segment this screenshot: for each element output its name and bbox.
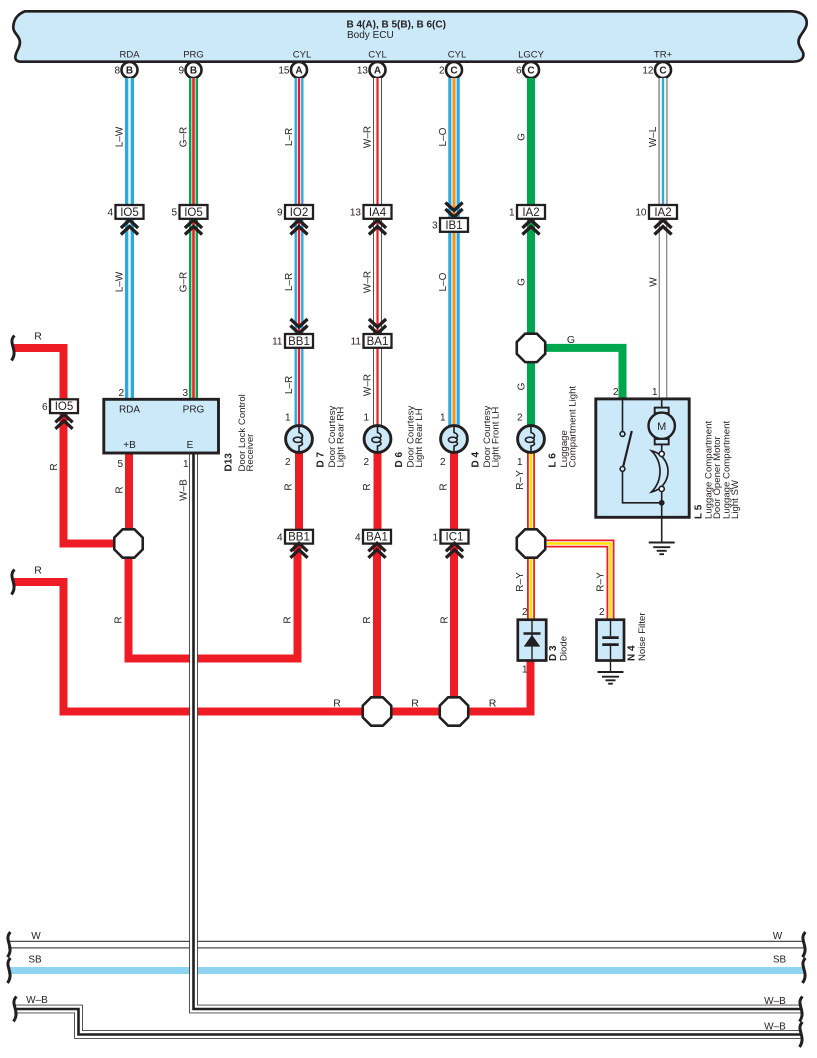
svg-text:L–R: L–R (284, 128, 295, 146)
junction J3 (R bus at BA1 drop) (363, 697, 391, 725)
svg-text:IO2: IO2 (290, 207, 309, 219)
wire G (pin 6(C) to connector IA2) (517, 78, 536, 205)
svg-text:+B: +B (123, 440, 136, 451)
svg-text:1: 1 (285, 413, 291, 424)
wire L-W (pin 8(B) to connector IO5) (115, 78, 135, 205)
svg-text:1: 1 (183, 459, 189, 470)
svg-text:2: 2 (440, 457, 446, 468)
wire W (bottom bus, left break to right break) (8, 931, 804, 948)
svg-text:R: R (283, 616, 294, 623)
junction J5 (R-Y wires) (517, 529, 545, 557)
L5 Luggage Compartment Door Opener Motor / Luggage Compartment Light SW (596, 399, 741, 519)
svg-text:C: C (450, 66, 457, 77)
svg-text:LGCY: LGCY (518, 50, 545, 61)
svg-text:BA1: BA1 (367, 336, 389, 348)
L5 pin 1 (652, 387, 658, 398)
wire W-B (D13 E pin 1 down to right break) (179, 453, 803, 1009)
svg-text:R: R (362, 483, 373, 490)
svg-text:D13: D13 (224, 453, 235, 472)
svg-text:2: 2 (285, 457, 291, 468)
junction J4 (R bus at IC1 drop) (440, 697, 468, 725)
svg-text:CYL: CYL (293, 50, 311, 61)
svg-text:IO5: IO5 (184, 207, 203, 219)
break symbol (R wire lower left) (12, 570, 15, 595)
svg-text:R: R (362, 616, 373, 623)
svg-text:5: 5 (117, 459, 123, 470)
connector pin 6(C) on Body ECU (516, 62, 539, 78)
svg-text:11: 11 (351, 337, 362, 348)
in-line connector BB1 pin 11 (272, 319, 313, 348)
svg-text:2: 2 (613, 387, 619, 398)
Body ECU connector box B 4(A), B 5(B), B 6(C) (13, 11, 806, 61)
svg-text:C: C (527, 66, 534, 77)
svg-text:Noise Filter: Noise Filter (637, 612, 648, 661)
svg-text:SB: SB (28, 955, 42, 966)
svg-text:W–R: W–R (363, 374, 374, 396)
svg-text:1: 1 (522, 665, 528, 676)
wire W-R (pin 13(A) to connector IA4) (363, 78, 382, 205)
svg-text:W–B: W–B (764, 996, 786, 1007)
wire R (connector IO5 to junction J1) (49, 413, 129, 544)
svg-text:13: 13 (357, 66, 369, 77)
wire R (D4 pin 2 to connector IC1 pin 1) (439, 452, 459, 530)
lamp D 7 Door Courtesy Light Rear RH (286, 405, 347, 467)
wire SB (bottom bus, left break to right break) (8, 955, 805, 975)
svg-text:10: 10 (635, 208, 647, 219)
junction J1 (R wires at D13 +B) (114, 529, 142, 557)
svg-text:Body ECU: Body ECU (347, 30, 394, 41)
svg-text:G–R: G–R (179, 127, 190, 148)
break symbol (SB bus right) (803, 958, 806, 983)
svg-text:3: 3 (432, 221, 438, 232)
svg-text:3: 3 (182, 388, 188, 399)
svg-text:5: 5 (171, 208, 177, 219)
wire L-W (connector IO5 to D13 RDA) (115, 219, 135, 399)
svg-text:G–R: G–R (179, 272, 190, 293)
svg-text:R: R (440, 616, 451, 623)
svg-text:D 3: D 3 (548, 645, 559, 661)
in-line connector IA2 pin 10 (635, 205, 677, 235)
svg-text:IO5: IO5 (120, 207, 139, 219)
svg-text:IO5: IO5 (55, 401, 74, 413)
svg-text:R: R (34, 565, 42, 577)
D3 pin 2 (522, 607, 528, 618)
D 6 pin 1 (top) (363, 413, 369, 424)
svg-text:N 4: N 4 (627, 645, 638, 661)
D3 pin 1 (522, 665, 528, 676)
svg-text:W: W (31, 931, 41, 942)
wire G branch (junction to L5 pin 2) (543, 334, 623, 399)
svg-text:W–L: W–L (648, 126, 659, 147)
svg-text:15: 15 (278, 66, 290, 77)
svg-text:L–W: L–W (115, 271, 126, 292)
D13 Door Lock Control Receiver (104, 394, 256, 471)
svg-text:R: R (333, 698, 341, 710)
svg-text:B 4(A), B 5(B), B 6(C): B 4(A), B 5(B), B 6(C) (347, 20, 446, 31)
svg-text:A: A (374, 66, 381, 77)
svg-text:BB1: BB1 (288, 336, 310, 348)
svg-text:IB1: IB1 (445, 220, 462, 232)
svg-text:W–R: W–R (363, 126, 374, 148)
D13 pin 5 (+B) (117, 459, 123, 470)
svg-text:G: G (517, 382, 528, 390)
svg-text:R: R (34, 331, 42, 343)
D13 pin 3 (PRG) (182, 388, 188, 399)
connector pin 2(C) on Body ECU (439, 62, 462, 78)
svg-text:TR+: TR+ (654, 50, 673, 61)
svg-text:G: G (517, 278, 528, 286)
svg-text:2: 2 (599, 607, 605, 618)
wire R (connector BA1 pin 4 to junction J3) (362, 542, 381, 712)
svg-text:13: 13 (350, 208, 362, 219)
svg-text:1: 1 (517, 457, 523, 468)
svg-text:M: M (657, 421, 666, 433)
svg-text:4: 4 (107, 208, 113, 219)
ground (N4) (598, 646, 624, 684)
in-line connector BA1 pin 4 (355, 530, 391, 558)
svg-text:R–Y: R–Y (596, 572, 607, 592)
wire R (connector IC1 pin 1 to junction J4) (440, 542, 459, 712)
D 4 pin 2 (bottom) (440, 457, 446, 468)
wire W-L (pin 12(C) to connector IA2) (648, 78, 667, 205)
wire L-O (connector IB1 to D4 pin 1) (438, 232, 460, 426)
break symbol (W-B bus left) (14, 997, 17, 1022)
svg-text:Diode: Diode (559, 636, 570, 661)
svg-text:D 7: D 7 (316, 452, 327, 468)
wire R-Y (junction J5 to D3 pin 2) (515, 558, 535, 620)
connector pin 12(C) on Body ECU (642, 62, 671, 78)
wire R-Y (L6 pin 1 to junction J5) (515, 452, 535, 529)
svg-text:1: 1 (440, 413, 446, 424)
break symbol (W-B bus right upper) (800, 997, 803, 1022)
svg-text:G: G (517, 133, 528, 141)
svg-text:W–B: W–B (179, 479, 190, 501)
svg-text:R: R (284, 483, 295, 490)
wire R (junction J1 down and right to connector BB1 pin 4) (114, 542, 298, 659)
break symbol (SB bus left) (8, 958, 11, 983)
svg-text:IA2: IA2 (522, 207, 539, 219)
svg-text:4: 4 (355, 532, 361, 543)
D13 pin 2 (RDA) (118, 388, 124, 399)
svg-text:D 6: D 6 (394, 452, 405, 468)
svg-text:L–O: L–O (438, 127, 449, 146)
svg-text:L 6: L 6 (548, 453, 559, 468)
L5 pin 2 (613, 387, 619, 398)
svg-text:A: A (295, 66, 302, 77)
svg-text:2: 2 (522, 607, 528, 618)
wire R (left break 2 along bottom to D3 pin 1) (14, 565, 531, 712)
svg-text:CYL: CYL (368, 50, 386, 61)
svg-text:SB: SB (773, 955, 787, 966)
D 7 pin 2 (bottom) (285, 457, 291, 468)
svg-text:L–R: L–R (284, 273, 295, 291)
wire W-B (left break, steps down, to right break) (14, 995, 802, 1035)
wire R (D6 pin 2 to connector BA1 pin 4) (362, 452, 382, 530)
svg-text:IA2: IA2 (654, 207, 671, 219)
svg-text:R: R (115, 486, 126, 493)
wire R (D13 +B pin 5 to junction J1) (115, 453, 134, 544)
svg-text:PRG: PRG (183, 405, 205, 416)
svg-text:W–B: W–B (26, 995, 48, 1006)
in-line connector IO5 pin 6 (42, 399, 78, 429)
svg-text:Compartment Light: Compartment Light (568, 386, 579, 468)
diode D3 (518, 620, 570, 661)
svg-text:G: G (567, 334, 575, 346)
svg-text:R: R (114, 616, 125, 623)
wire G-R (connector IO5 to D13 PRG) (179, 219, 199, 399)
break symbol (W bus right) (803, 932, 806, 957)
svg-text:W: W (649, 277, 660, 287)
svg-text:12: 12 (642, 66, 654, 77)
svg-text:6: 6 (42, 402, 48, 413)
svg-text:2: 2 (118, 388, 124, 399)
wire R (left break to connector IO5 pin 6) (14, 331, 64, 400)
svg-text:8: 8 (114, 66, 120, 77)
svg-text:9: 9 (277, 208, 283, 219)
svg-text:B: B (126, 66, 133, 77)
svg-text:2: 2 (439, 66, 445, 77)
in-line connector BB1 pin 4 (277, 530, 313, 558)
svg-text:Receiver: Receiver (245, 433, 256, 472)
D 6 pin 2 (bottom) (363, 457, 369, 468)
connector pin 13(A) on Body ECU (357, 62, 386, 78)
lamp L 6 Luggage Compartment Light (518, 386, 579, 468)
break symbol (W-B bus right lower) (800, 1022, 803, 1047)
L 6 pin 2 (top) (517, 413, 523, 424)
wire R (D7 pin 2 to connector BB1 pin 4) (284, 452, 304, 530)
svg-text:E: E (187, 440, 194, 451)
wire W (connector IA2 to L5 pin 1) (649, 219, 668, 399)
in-line connector IO5 pin 5 (171, 205, 207, 235)
svg-text:C: C (659, 66, 666, 77)
svg-text:Light Front LH: Light Front LH (491, 407, 502, 468)
svg-text:11: 11 (272, 337, 283, 348)
svg-text:Light SW: Light SW (730, 479, 741, 519)
svg-text:2: 2 (517, 413, 523, 424)
in-line connector IA2 pin 1 (509, 205, 545, 235)
svg-text:L–O: L–O (438, 272, 449, 291)
svg-text:W–R: W–R (363, 271, 374, 293)
svg-text:RDA: RDA (119, 405, 140, 416)
connector pin 9(B) on Body ECU (178, 62, 201, 78)
connector pin 15(A) on Body ECU (278, 62, 307, 78)
wire L-O (pin 2(C) to connector IB1) (438, 78, 460, 218)
svg-text:L–W: L–W (115, 126, 126, 147)
svg-text:2: 2 (363, 457, 369, 468)
svg-text:1: 1 (509, 208, 515, 219)
svg-text:W–B: W–B (764, 1022, 786, 1033)
in-line connector IO5 pin 4 (107, 205, 143, 235)
in-line connector BA1 pin 11 (351, 319, 392, 348)
break symbol (R wire upper left) (12, 336, 15, 361)
wire W-R (connector IA4 to connector BA1) (363, 219, 382, 334)
L 6 pin 1 (bottom) (517, 457, 523, 468)
svg-text:IA4: IA4 (369, 207, 387, 219)
svg-text:Light Rear LH: Light Rear LH (414, 408, 425, 467)
svg-text:Light Rear RH: Light Rear RH (336, 407, 347, 468)
svg-text:6: 6 (516, 66, 522, 77)
wire L-R (connector BB1 to D7 pin 1) (284, 348, 304, 426)
in-line connector IC1 pin 1 (432, 530, 468, 558)
svg-text:PRG: PRG (183, 50, 204, 61)
D13 pin 1 (E) (183, 459, 189, 470)
svg-text:CYL: CYL (448, 50, 466, 61)
in-line connector IO2 pin 9 (277, 205, 313, 235)
svg-text:9: 9 (178, 66, 184, 77)
noise filter N4 (capacitor) (597, 612, 649, 661)
wire L-R (pin 15(A) to connector IO2) (284, 78, 304, 205)
svg-text:R: R (489, 698, 497, 710)
in-line connector IA4 pin 13 (350, 205, 392, 235)
D 7 pin 1 (top) (285, 413, 291, 424)
svg-text:D 4: D 4 (471, 452, 482, 468)
svg-text:L–R: L–R (284, 376, 295, 394)
svg-text:R: R (49, 463, 60, 470)
lamp D 4 Door Courtesy Light Front LH (441, 405, 502, 467)
svg-text:B: B (190, 66, 197, 77)
break symbol (W bus left) (8, 932, 11, 957)
wire R-Y (junction J5 branch to N4 pin 2) (543, 544, 611, 620)
lamp D 6 Door Courtesy Light Rear LH (364, 405, 425, 467)
N4 pin 2 (599, 607, 605, 618)
svg-text:W: W (773, 931, 783, 942)
svg-text:R: R (411, 698, 419, 710)
svg-text:1: 1 (652, 387, 658, 398)
connector pin 8(B) on Body ECU (114, 62, 137, 78)
junction (G wire to L5 branch) (517, 334, 545, 362)
wire L-R (connector IO2 to connector BB1) (284, 219, 304, 334)
wire G (junction to L6 pin 2) (517, 363, 536, 426)
svg-text:RDA: RDA (119, 50, 140, 61)
wire G (connector IA2 to junction) (517, 219, 536, 333)
D 4 pin 1 (top) (440, 413, 446, 424)
in-line connector IB1 pin 3 (432, 203, 468, 232)
wire W-R (connector BA1 to D6 pin 1) (363, 348, 382, 426)
wire G-R (pin 9(B) to connector IO5) (179, 78, 199, 205)
svg-text:R–Y: R–Y (515, 572, 526, 592)
svg-text:1: 1 (363, 413, 369, 424)
svg-text:R–Y: R–Y (515, 470, 526, 490)
svg-text:1: 1 (432, 532, 438, 543)
svg-text:R: R (439, 483, 450, 490)
ground (L5 case) (649, 503, 675, 554)
svg-text:4: 4 (277, 532, 283, 543)
